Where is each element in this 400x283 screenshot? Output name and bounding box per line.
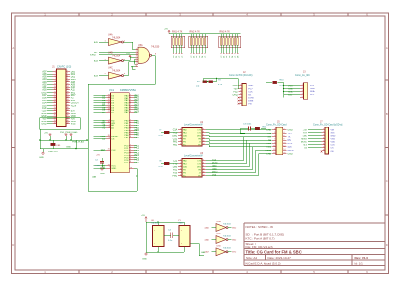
svg-text:4: 4 — [180, 168, 181, 170]
ground GND under J1 — [42, 152, 44, 154]
svg-text:A00: A00 — [42, 89, 47, 92]
svg-text:A15: A15 — [94, 41, 99, 44]
svg-text:D4: D4 — [202, 56, 204, 58]
svg-text:D1: D1 — [193, 56, 195, 58]
ground GND (oscillator) — [142, 253, 147, 261]
svg-text:2: 2 — [283, 128, 284, 130]
svg-text:C3 100n: C3 100n — [243, 124, 252, 126]
svg-text:wA5: wA5 — [205, 226, 210, 229]
svg-text:GND: GND — [39, 157, 44, 159]
svg-text:OE: OE — [331, 151, 335, 153]
svg-text:RN2 4.7K: RN2 4.7K — [190, 31, 201, 34]
svg-text:LevelConverterW: LevelConverterW — [184, 154, 203, 157]
svg-text:+5V: +5V — [141, 215, 145, 217]
svg-text:+12V: +12V — [71, 105, 77, 107]
svg-text:3V3: 3V3 — [331, 132, 336, 134]
svg-text:7: 7 — [109, 167, 110, 169]
svg-text:3: 3 — [179, 270, 181, 274]
svg-text:Id: 1/1: Id: 1/1 — [355, 261, 364, 265]
svg-text:+5V: +5V — [44, 133, 48, 135]
svg-text:D5: D5 — [205, 56, 207, 58]
IC VC1 KR580VV55A — [88, 88, 140, 191]
svg-text:5: 5 — [105, 73, 107, 75]
wires C3/R11 — [240, 129, 266, 134]
svg-text:5: 5 — [274, 135, 275, 137]
svg-text:2: 2 — [180, 162, 181, 164]
svg-text:LAB: LAB — [92, 176, 97, 179]
svg-text:B: B — [12, 112, 14, 116]
svg-text:U5B: U5B — [217, 221, 222, 223]
svg-text:GND: GND — [310, 88, 315, 90]
resistor R10 — [273, 80, 285, 88]
wires J3 area — [266, 82, 300, 97]
svg-text:GND: GND — [100, 173, 105, 175]
svg-text:4: 4 — [180, 137, 181, 139]
svg-text:KR580VV55A: KR580VV55A — [120, 88, 136, 92]
svg-text:wA6: wA6 — [205, 238, 210, 241]
svg-text:DM1: DM1 — [172, 136, 178, 138]
svg-text:PB1: PB1 — [173, 145, 178, 147]
svg-text:PA1: PA1 — [173, 141, 178, 144]
svg-text:4: 4 — [323, 137, 324, 139]
svg-text:2: 2 — [111, 270, 113, 274]
svg-text:7: 7 — [203, 159, 204, 161]
svg-text:DRQ: DRQ — [233, 94, 238, 96]
svg-text:12: 12 — [283, 145, 285, 147]
svg-text:SLK: SLK — [288, 147, 293, 149]
svg-text:9: 9 — [203, 134, 204, 136]
svg-text:PS1_PWR_FLAG: PS1_PWR_FLAG — [60, 131, 78, 134]
wire from VC1 pin PC7 loop — [129, 168, 134, 170]
svg-text:+5V: +5V — [234, 88, 239, 90]
svg-text:+5V: +5V — [126, 53, 130, 55]
svg-text:2: 2 — [323, 131, 324, 133]
svg-text:6: 6 — [240, 99, 241, 101]
svg-text:8: 8 — [109, 126, 110, 128]
svg-text:B6e: B6e — [232, 239, 237, 241]
svg-text:I7: I7 — [160, 130, 163, 132]
svg-text:U5A: U5A — [138, 44, 143, 47]
wires oscillator top/bottom rails — [146, 222, 204, 256]
+5V power symbol for resistor networks — [164, 29, 170, 34]
resistor R11 — [255, 127, 267, 130]
power flags / decoupling under J1 — [39, 118, 88, 159]
svg-text:T8: T8 — [218, 80, 221, 82]
svg-text:R11: R11 — [263, 127, 268, 129]
svg-text:PA7: PA7 — [135, 111, 140, 114]
svg-text:3: 3 — [240, 90, 241, 92]
inverter U5B 74LS04 — [205, 221, 237, 231]
svg-text:R10: R10 — [280, 80, 285, 82]
ground at C2 — [101, 168, 103, 170]
svg-text:PC7: PC7 — [248, 88, 253, 90]
svg-text:A11: A11 — [71, 89, 76, 92]
svg-text:A01: A01 — [42, 86, 47, 89]
svg-text:CMD: CMD — [212, 168, 217, 170]
svg-text:IORQ: IORQ — [90, 55, 96, 57]
resistor R8 — [196, 81, 207, 88]
wire U5A output loop — [88, 55, 155, 191]
svg-text:GND: GND — [288, 130, 293, 132]
svg-text:CS: CS — [111, 139, 115, 141]
svg-text:VDD: VDD — [331, 142, 336, 144]
svg-text:LevelConverterW: LevelConverterW — [184, 123, 203, 126]
svg-text:8: 8 — [283, 139, 284, 141]
IC U2 LevelConverter — [172, 121, 206, 147]
svg-text:MISO: MISO — [212, 171, 218, 173]
svg-text:SDA: SDA — [288, 90, 293, 93]
svg-text:74LS04: 74LS04 — [223, 223, 231, 225]
svg-text:10: 10 — [203, 137, 205, 139]
svg-text:NOTE1 : SV59C - W: NOTE1 : SV59C - W — [246, 225, 274, 229]
svg-text:CLK: CLK — [331, 145, 336, 147]
svg-text:12: 12 — [203, 143, 205, 145]
svg-text:LM0: LM0 — [173, 167, 178, 169]
inverter U4A 74LS04 — [94, 34, 126, 46]
svg-text:Conn 4x PIC (DI-14C): Conn 4x PIC (DI-14C) — [229, 74, 253, 77]
svg-text:VSS: VSS — [331, 139, 336, 141]
svg-text:B: B — [386, 112, 388, 116]
wire U4A out to U5A — [124, 42, 136, 50]
svg-text:7: 7 — [203, 128, 204, 130]
resistor R9 — [209, 80, 223, 87]
svg-text:3: 3 — [323, 134, 324, 136]
ferrite bead FB1 — [51, 143, 56, 145]
svg-text:8: 8 — [130, 161, 131, 163]
svg-text:6: 6 — [323, 143, 324, 145]
svg-text:C4: C4 — [168, 230, 172, 232]
svg-text:D2: D2 — [179, 56, 181, 58]
svg-text:6: 6 — [124, 73, 126, 75]
svg-text:wA7: wA7 — [205, 251, 210, 254]
wire A13 jog — [124, 59, 136, 75]
svg-text:J1: J1 — [52, 65, 55, 69]
svg-text:5: 5 — [313, 270, 315, 274]
svg-text:5: 5 — [302, 96, 303, 98]
svg-text:GND: GND — [248, 85, 253, 87]
svg-text:14: 14 — [283, 149, 285, 151]
svg-text:1: 1 — [240, 84, 241, 86]
svg-text:RD13: RD13 — [265, 150, 272, 152]
svg-text:FS0: FS0 — [173, 173, 178, 175]
inverter U5D 74LS04 — [205, 246, 237, 256]
svg-text:8: 8 — [130, 111, 131, 113]
svg-text:12: 12 — [203, 174, 205, 176]
svg-text:GND: GND — [41, 124, 46, 126]
svg-text:x17: x17 — [197, 81, 201, 83]
inverter U4B 74LS04 — [94, 52, 126, 64]
svg-text:4.7k: 4.7k — [218, 84, 223, 86]
svg-text:5/1: 5/1 — [248, 94, 252, 96]
svg-text:11: 11 — [273, 145, 275, 147]
connector J2 — [229, 71, 255, 106]
svg-text:A: A — [386, 46, 388, 50]
svg-text:Title: CG Card for FM & SBC: Title: CG Card for FM & SBC — [246, 249, 302, 254]
svg-text:5: 5 — [323, 140, 324, 142]
svg-text:+5V: +5V — [96, 155, 100, 157]
svg-text:8: 8 — [130, 136, 131, 138]
svg-text:3: 3 — [180, 134, 181, 136]
svg-text:6: 6 — [109, 137, 110, 139]
svg-text:MOSI: MOSI — [288, 150, 294, 152]
svg-text:A14: A14 — [94, 60, 99, 63]
svg-text:MISO: MISO — [301, 139, 307, 141]
crystal Y1 — [178, 220, 190, 247]
wire U4B out — [124, 57, 136, 61]
svg-text:6: 6 — [180, 143, 181, 145]
wire +5V bus over RN1-RN3 — [169, 33, 240, 35]
svg-text:1: 1 — [323, 128, 324, 130]
svg-text:KiCad E.D.A. kicad (5.0.2): KiCad E.D.A. kicad (5.0.2) — [246, 261, 281, 265]
oscillator U6 74LS04 — [151, 220, 164, 247]
svg-text:D1: D1 — [223, 56, 225, 58]
svg-text:RD0: RD0 — [267, 143, 272, 145]
svg-text:D3: D3 — [199, 56, 201, 58]
svg-text:100n: 100n — [95, 165, 101, 167]
svg-text:D2: D2 — [196, 56, 198, 58]
svg-text:GND: GND — [288, 153, 293, 155]
svg-text:GND: GND — [66, 147, 71, 149]
svg-text:6: 6 — [283, 135, 284, 137]
svg-text:A: A — [12, 46, 14, 50]
svg-text:1: 1 — [44, 270, 46, 274]
svg-text:10: 10 — [283, 142, 285, 144]
svg-text:U5D: U5D — [217, 246, 222, 248]
svg-text:CS: CS — [304, 148, 308, 150]
svg-text:TXT: TXT — [303, 132, 308, 134]
svg-text:KTC : Port A (BIT 0,7): KTC : Port A (BIT 0,7) — [246, 237, 275, 241]
svg-text:A10: A10 — [71, 86, 76, 89]
svg-text:CN-PC (1/2): CN-PC (1/2) — [57, 65, 71, 69]
svg-text:CS: CS — [331, 148, 335, 150]
svg-text:9: 9 — [203, 165, 204, 167]
svg-text:A1: A1 — [102, 127, 106, 130]
svg-text:74LS04: 74LS04 — [112, 54, 121, 57]
svg-text:GND: GND — [266, 153, 271, 155]
svg-text:RD1: RD1 — [267, 147, 272, 149]
svg-text:RN3 4.7K: RN3 4.7K — [220, 31, 231, 34]
title block — [244, 223, 385, 266]
svg-text:D3: D3 — [182, 56, 184, 58]
svg-text:VSS: VSS — [71, 124, 76, 126]
inverter U5C 74LS04 — [205, 233, 237, 243]
svg-text:5: 5 — [180, 140, 181, 142]
svg-text:GND: GND — [331, 136, 336, 138]
svg-text:C22: C22 — [173, 161, 178, 163]
wires U3 staircase to J5 — [206, 137, 272, 176]
connector J3 — [288, 71, 315, 100]
svg-text:A07: A07 — [42, 70, 47, 73]
svg-text:VM: VM — [331, 129, 334, 131]
svg-text:74LS04: 74LS04 — [112, 36, 121, 39]
wires J2 area — [204, 78, 239, 88]
svg-text:SCL: SCL — [310, 94, 315, 96]
svg-text:MOSI: MOSI — [212, 162, 218, 164]
svg-text:100n 5.1v: 100n 5.1v — [48, 151, 59, 153]
svg-text:+5V: +5V — [267, 136, 272, 138]
svg-text:Date: 2023-10-27: Date: 2023-10-27 — [268, 256, 292, 260]
svg-text:7: 7 — [240, 102, 241, 104]
svg-text:D0: D0 — [221, 56, 223, 58]
svg-text:Conn_Ax_I2C: Conn_Ax_I2C — [295, 74, 310, 77]
+5V flag near U5A — [126, 53, 131, 57]
svg-text:D: D — [12, 243, 14, 247]
svg-text:4.7k: 4.7k — [159, 135, 164, 137]
svg-text:A13: A13 — [94, 75, 99, 78]
svg-text:5: 5 — [180, 171, 181, 173]
connector J1 — [41, 65, 79, 127]
svg-text:0.1u: 0.1u — [168, 240, 173, 242]
resistor network RN3 — [219, 31, 241, 58]
PWR_FLAG symbols — [49, 134, 72, 136]
svg-text:D6: D6 — [237, 56, 239, 58]
svg-text:3: 3 — [180, 165, 181, 167]
svg-text:GND: GND — [142, 259, 147, 261]
svg-text:+CK: +CK — [303, 129, 308, 131]
svg-text:11: 11 — [203, 140, 205, 142]
svg-text:4: 4 — [240, 93, 241, 95]
svg-text:Conn_Px_SD-Card: Conn_Px_SD-Card — [266, 123, 287, 126]
svg-text:1: 1 — [180, 159, 181, 161]
svg-text:MLSC: MLSC — [301, 142, 307, 144]
svg-text:PS1: PS1 — [173, 170, 178, 172]
svg-text:1: 1 — [180, 128, 181, 130]
svg-text:3: 3 — [274, 132, 275, 134]
svg-text:TX: TX — [288, 136, 291, 138]
svg-text:D0: D0 — [173, 56, 175, 58]
svg-text:A08: A08 — [71, 81, 76, 84]
svg-text:GND: GND — [266, 130, 271, 132]
svg-text:D5: D5 — [235, 56, 237, 58]
svg-text:A04: A04 — [42, 78, 47, 81]
svg-text:11: 11 — [203, 171, 205, 173]
svg-text:CLK: CLK — [248, 91, 253, 93]
svg-text:U5C: U5C — [217, 233, 222, 235]
svg-text:RN1 4.7K: RN1 4.7K — [172, 31, 183, 34]
svg-text:6: 6 — [180, 174, 181, 176]
resistor network RN1 — [171, 31, 185, 58]
svg-text:DOW: DOW — [248, 97, 254, 99]
svg-text:LML: LML — [303, 136, 308, 138]
resistor R7 — [159, 161, 179, 168]
svg-text:CS1: CS1 — [173, 139, 178, 141]
capacitor C4 — [164, 230, 179, 242]
svg-text:9: 9 — [274, 142, 275, 144]
svg-text:A06: A06 — [42, 73, 47, 76]
svg-text:A09: A09 — [71, 83, 76, 86]
svg-text:10: 10 — [203, 168, 205, 170]
svg-text:GND: GND — [111, 168, 116, 170]
svg-text:D1: D1 — [176, 56, 178, 58]
svg-text:7: 7 — [323, 146, 324, 148]
svg-text:4.7k: 4.7k — [159, 166, 164, 168]
svg-text:B5e: B5e — [232, 227, 237, 229]
svg-text:1: 1 — [302, 84, 303, 86]
svg-text:4: 4 — [302, 93, 303, 95]
resistor R6 — [159, 130, 179, 137]
svg-text:4: 4 — [246, 270, 248, 274]
svg-text:8: 8 — [323, 149, 324, 151]
svg-text:GND: GND — [233, 85, 238, 87]
svg-text:15: 15 — [273, 152, 275, 154]
svg-text:16: 16 — [283, 152, 285, 154]
svg-text:Size: A4: Size: A4 — [246, 256, 257, 260]
NAND gate U5A 74LS30 — [136, 44, 160, 68]
svg-text:25: 25 — [108, 149, 110, 151]
svg-text:2: 2 — [180, 131, 181, 133]
wire IORQ input — [90, 55, 136, 57]
svg-text:8: 8 — [203, 131, 204, 133]
svg-text:PWR_FLAG: PWR_FLAG — [72, 140, 84, 143]
svg-text:74LS04: 74LS04 — [151, 223, 159, 225]
svg-text:C1A: C1A — [173, 129, 178, 132]
svg-text:4: 4 — [283, 132, 284, 134]
svg-text:74LS04: 74LS04 — [223, 235, 231, 237]
svg-text:5: 5 — [240, 96, 241, 98]
svg-text:R/B: R/B — [267, 133, 271, 135]
inverter U4C 74LS04 — [94, 67, 126, 80]
svg-text:CS: CS — [288, 140, 292, 142]
wire RD input — [94, 52, 136, 54]
svg-text:(.1): (.1) — [196, 86, 200, 88]
svg-text:FB1: FB1 — [57, 145, 62, 147]
svg-text:42: 42 — [67, 123, 69, 125]
connector J7 — [301, 120, 343, 154]
svg-text:MTF: MTF — [288, 143, 293, 145]
svg-text:C: C — [12, 179, 14, 183]
resistor network RN2 — [189, 31, 208, 58]
svg-text:74LS04: 74LS04 — [223, 248, 231, 250]
svg-text:DW8: DW8 — [248, 100, 254, 102]
svg-text:A05: A05 — [42, 76, 47, 79]
svg-text:B7e: B7e — [232, 252, 237, 254]
svg-text:D: D — [386, 243, 388, 247]
svg-text:Y1: Y1 — [178, 220, 181, 222]
svg-text:VSS: VSS — [212, 174, 217, 176]
svg-text:PS2: PS2 — [233, 91, 238, 93]
svg-text:3V3: 3V3 — [310, 85, 315, 87]
svg-text:CLK: CLK — [111, 150, 116, 152]
svg-text:A03: A03 — [42, 81, 47, 84]
svg-text:D4: D4 — [232, 56, 234, 58]
svg-text:7: 7 — [274, 139, 275, 141]
capacitor C2 at VC1 — [100, 162, 104, 164]
+5V power symbol (oscillator) — [141, 215, 147, 222]
IC U3 LevelConverter — [172, 152, 206, 178]
svg-text:TXT: TXT — [288, 133, 293, 135]
svg-text:8: 8 — [136, 65, 137, 67]
svg-text:U6: U6 — [151, 220, 155, 222]
wires U2 to J5 — [206, 130, 272, 147]
capacitor C3 — [243, 124, 252, 131]
svg-text:2: 2 — [302, 87, 303, 89]
svg-text:13: 13 — [273, 149, 275, 151]
svg-text:3: 3 — [302, 90, 303, 92]
svg-text:D3: D3 — [229, 56, 231, 58]
svg-text:PM1: PM1 — [172, 176, 177, 178]
svg-text:6: 6 — [366, 270, 368, 274]
svg-text:VC1: VC1 — [109, 88, 115, 92]
svg-text:I8: I8 — [160, 161, 163, 163]
connector J5 — [265, 120, 293, 155]
svg-text:D2: D2 — [226, 56, 228, 58]
svg-text:C: C — [386, 179, 388, 183]
svg-text:10: 10 — [130, 167, 132, 169]
svg-text:TW: TW — [248, 104, 252, 106]
svg-text:Conn_Px_SD-Card [uSD-a]: Conn_Px_SD-Card [uSD-a] — [313, 123, 343, 126]
svg-text:+5V: +5V — [164, 29, 168, 31]
svg-text:TCK: TCK — [212, 159, 217, 161]
